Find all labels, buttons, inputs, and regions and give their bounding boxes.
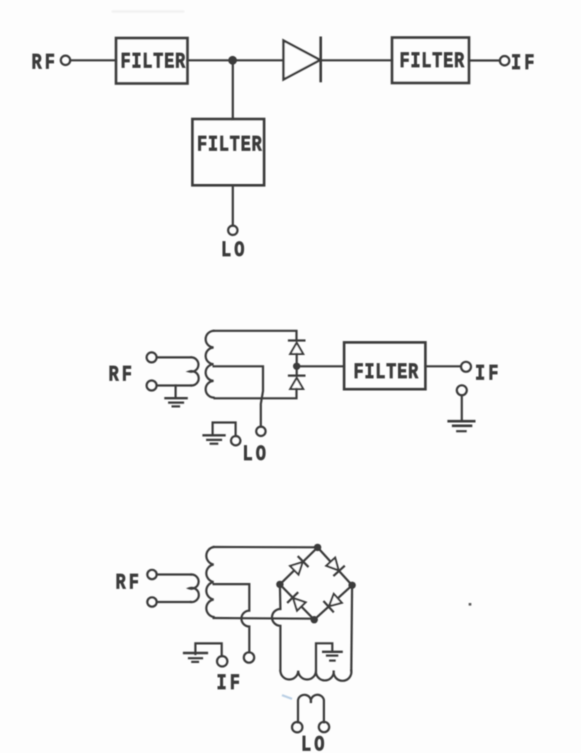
transformer T3 primary winding (4 loops, facing down) bbox=[280, 671, 351, 681]
LO ground terminal circle bbox=[231, 436, 240, 445]
svg-text:IF: IF bbox=[511, 51, 537, 76]
wire ring left vertex to transformer T3 (hop over RF bottom wire) bbox=[272, 584, 280, 670]
svg-text:FILTER: FILTER bbox=[354, 360, 419, 385]
diode D1 cathode bar bbox=[319, 38, 322, 81]
ground (T3 center tap) bbox=[323, 651, 341, 653]
svg-text:IF: IF bbox=[217, 671, 243, 696]
wire node A down to filter FL2 bbox=[232, 60, 234, 119]
wire D2 to junction node B bbox=[296, 354, 298, 363]
svg-text:LO: LO bbox=[243, 442, 269, 467]
label FILTER (FL2) bbox=[197, 132, 262, 157]
wire upper RF terminal to transformer T2 primary bbox=[157, 573, 191, 575]
label FILTER (FL3) bbox=[400, 49, 465, 74]
ground (IF return, bottom circuit) bbox=[184, 652, 207, 654]
wire D3 to T1 secondary bottom bbox=[215, 389, 297, 398]
wire FL4 to IF terminal bbox=[425, 365, 461, 367]
diode D5 (top to right) bbox=[326, 557, 344, 575]
diode D6 (bottom to left) bbox=[288, 593, 306, 611]
filter FL2 (LO filter) box bbox=[192, 119, 264, 185]
faint blue scan artifact bbox=[283, 696, 291, 699]
wire T1 secondary top to diode D2 bbox=[214, 331, 297, 341]
wire FL2 to LO terminal bbox=[232, 185, 234, 225]
ring edge left-bottom bbox=[280, 584, 314, 619]
LO terminal left (bottom circuit) bbox=[292, 722, 302, 732]
diode D4 (left to top) bbox=[290, 557, 308, 575]
ring node left bbox=[276, 581, 283, 588]
label RF (bottom circuit) bbox=[116, 571, 142, 596]
wire FL3 to IF terminal bbox=[469, 59, 500, 61]
ring node top bbox=[314, 544, 321, 551]
RF terminal upper (middle circuit) bbox=[147, 352, 157, 362]
ground (RF return, middle circuit) bbox=[175, 386, 177, 398]
svg-text:RF: RF bbox=[109, 362, 135, 387]
wire T2 secondary bottom to ring bottom vertex bbox=[214, 617, 315, 620]
wire D1 to filter FL3 bbox=[321, 59, 392, 61]
filter FL3 (IF filter) box bbox=[392, 38, 469, 84]
svg-text:LO: LO bbox=[301, 733, 327, 753]
LO terminal (top circuit) bbox=[228, 226, 237, 235]
label IF (middle circuit) bbox=[475, 361, 501, 386]
label LO (top circuit) bbox=[221, 238, 247, 263]
ring node right bbox=[348, 582, 355, 589]
IF terminal (bottom circuit) bbox=[244, 652, 254, 662]
wire lower RF terminal to transformer T1 primary bbox=[157, 384, 191, 386]
diode D3 cathode bar bbox=[289, 375, 304, 377]
svg-text:IF: IF bbox=[475, 361, 501, 386]
RF terminal lower (middle circuit) bbox=[147, 381, 157, 391]
label RF (middle circuit) bbox=[109, 362, 135, 387]
transformer T1 secondary winding (4 loops) bbox=[206, 331, 214, 398]
ring node bottom bbox=[311, 616, 318, 623]
svg-text:LO: LO bbox=[221, 238, 247, 263]
label FILTER (FL1) bbox=[121, 50, 186, 75]
wire node B to filter FL4 bbox=[297, 365, 344, 367]
RF terminal lower (bottom circuit) bbox=[147, 597, 156, 606]
ring edge left-top bbox=[280, 547, 318, 584]
label LO (middle circuit) bbox=[243, 442, 269, 467]
wire T1 center tap to LO terminal (with jog over RF return) bbox=[214, 366, 263, 426]
wire T2 secondary top to ring top vertex bbox=[214, 546, 318, 548]
wire T2 center tap to IF terminal (hop drawn on vertical) bbox=[214, 584, 250, 652]
RF input terminal (top circuit) bbox=[61, 56, 70, 65]
transformer T1 primary winding (2 loops) bbox=[189, 357, 199, 385]
diode D1 (series mixer diode, anode left) bbox=[284, 41, 321, 80]
junction node B (diode midpoint) bbox=[293, 363, 300, 370]
svg-text:FILTER: FILTER bbox=[400, 49, 465, 74]
IF ground terminal wire (bottom circuit) bbox=[195, 643, 221, 656]
ring edge top-right bbox=[318, 547, 353, 585]
IF ground terminal circle (bottom circuit) bbox=[217, 656, 227, 666]
transformer T3 secondary winding (2 loops, facing up) bbox=[298, 695, 324, 723]
wire IF ground terminal to ground bbox=[461, 395, 463, 420]
svg-text:RF: RF bbox=[32, 51, 58, 76]
IF terminal (middle circuit) bbox=[461, 362, 471, 372]
LO ground terminal wire (middle circuit) bbox=[213, 423, 236, 437]
IF output terminal (top circuit) bbox=[500, 56, 509, 65]
label IF (top circuit) bbox=[511, 51, 537, 76]
wire ring right vertex to transformer T3 bbox=[350, 585, 353, 670]
LO terminal right (bottom circuit) bbox=[319, 722, 329, 732]
wire lower RF terminal to transformer T2 primary bbox=[157, 601, 191, 603]
label IF (bottom circuit) bbox=[217, 671, 243, 696]
svg-text:FILTER: FILTER bbox=[121, 50, 186, 75]
junction node A (LO branch tap) bbox=[228, 56, 237, 65]
LO terminal (middle circuit) bbox=[256, 427, 265, 436]
transformer T2 primary winding (2 loops) bbox=[189, 574, 199, 602]
label RF (top circuit) bbox=[32, 51, 58, 76]
IF ground terminal circle (middle circuit) bbox=[457, 385, 467, 395]
svg-text:RF: RF bbox=[116, 571, 142, 596]
faint scan smudge top edge bbox=[113, 10, 183, 13]
diode D7 (right to bottom) bbox=[324, 593, 342, 611]
filter FL1 (RF filter) box bbox=[116, 38, 188, 84]
svg-text:FILTER: FILTER bbox=[197, 132, 262, 157]
ring edge right-bottom bbox=[314, 585, 352, 619]
wire RF terminal to filter FL1 bbox=[70, 59, 116, 61]
label FILTER (FL4) bbox=[354, 360, 419, 385]
diode D2 (upper, pointing up) bbox=[290, 343, 303, 354]
wire node B to diode D3 bbox=[296, 366, 298, 375]
stray speck artifact bbox=[469, 603, 472, 606]
wire FL1 to diode D1 bbox=[188, 59, 284, 61]
RF terminal upper (bottom circuit) bbox=[147, 570, 156, 579]
label LO (bottom circuit) bbox=[301, 733, 327, 753]
transformer T2 secondary winding (4 loops) bbox=[206, 547, 213, 617]
ground (IF return, middle circuit) bbox=[449, 420, 475, 423]
wire upper RF terminal to transformer T1 primary bbox=[157, 356, 191, 358]
ground (LO return, middle circuit) bbox=[204, 434, 225, 436]
diode D2 cathode bar bbox=[289, 339, 304, 341]
diode D3 (lower, pointing up) bbox=[290, 378, 303, 389]
filter FL4 (IF filter, middle circuit) box bbox=[344, 342, 425, 389]
wire T3 center tap to ground bbox=[316, 643, 332, 670]
